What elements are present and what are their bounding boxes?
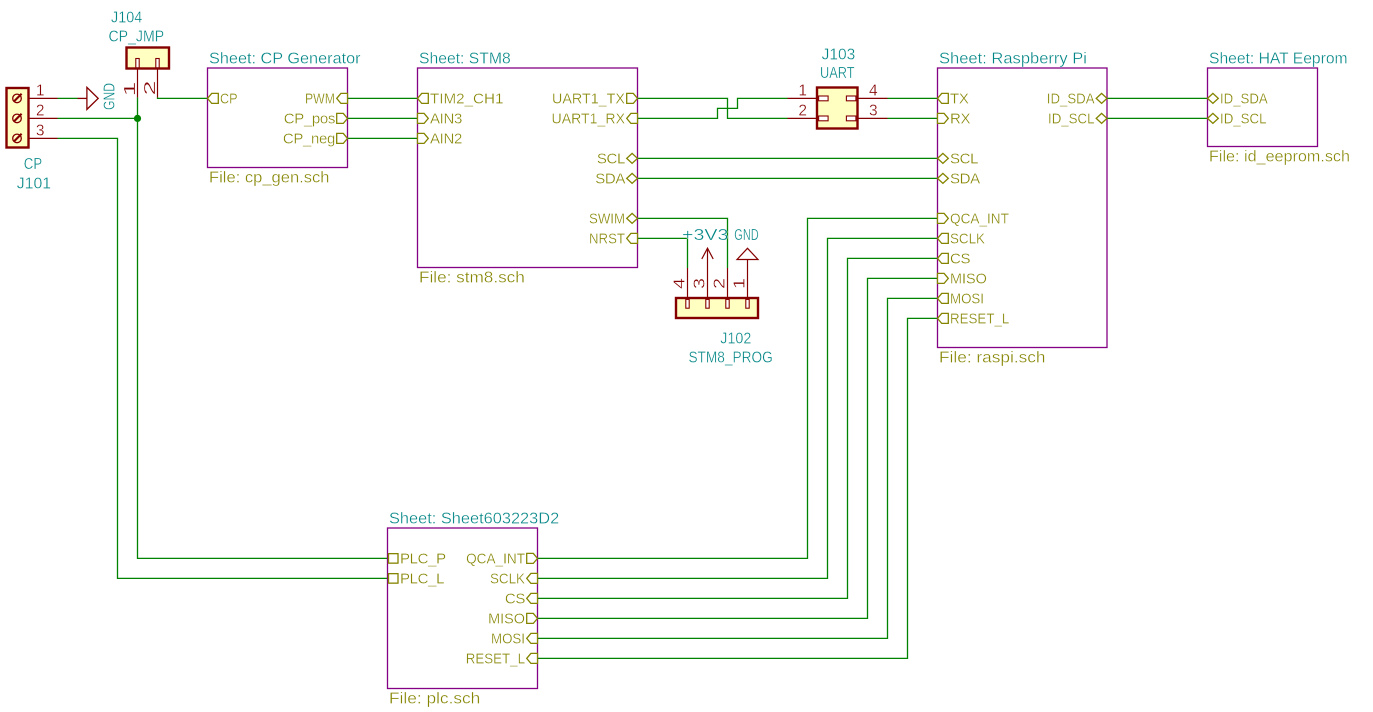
svg-text:File: stm8.sch: File: stm8.sch (419, 270, 525, 287)
svg-text:RESET_L: RESET_L (466, 650, 525, 667)
svg-text:SCL: SCL (950, 150, 978, 167)
svg-text:NRST: NRST (589, 230, 625, 247)
svg-text:Sheet: Sheet603223D2: Sheet: Sheet603223D2 (389, 511, 559, 528)
svg-text:SDA: SDA (595, 170, 625, 187)
svg-text:Sheet: CP Generator: Sheet: CP Generator (209, 51, 361, 68)
svg-text:CP_JMP: CP_JMP (109, 29, 165, 46)
svg-text:ID_SDA: ID_SDA (1047, 90, 1095, 107)
svg-text:SCLK: SCLK (490, 570, 525, 587)
svg-text:STM8_PROG: STM8_PROG (688, 350, 772, 367)
svg-text:File: cp_gen.sch: File: cp_gen.sch (209, 170, 330, 187)
svg-text:RX: RX (950, 110, 970, 127)
svg-text:Sheet: Raspberry Pi: Sheet: Raspberry Pi (939, 51, 1087, 68)
svg-text:3: 3 (869, 102, 878, 119)
svg-text:CP: CP (24, 156, 42, 173)
svg-text:ID_SCL: ID_SCL (1220, 110, 1267, 127)
svg-text:SCLK: SCLK (950, 230, 985, 247)
svg-text:RESET_L: RESET_L (950, 310, 1009, 327)
svg-text:MISO: MISO (950, 270, 987, 287)
svg-text:CP_neg: CP_neg (283, 130, 335, 147)
svg-text:UART1_TX: UART1_TX (552, 90, 625, 107)
svg-text:2: 2 (798, 102, 807, 119)
svg-text:1: 1 (122, 82, 139, 97)
svg-text:QCA_INT: QCA_INT (950, 210, 1009, 227)
svg-text:Sheet: STM8: Sheet: STM8 (419, 51, 511, 68)
svg-text:J104: J104 (111, 10, 143, 27)
svg-text:SDA: SDA (950, 170, 980, 187)
svg-text:CS: CS (505, 590, 525, 607)
svg-text:MISO: MISO (488, 610, 525, 627)
svg-text:File: raspi.sch: File: raspi.sch (939, 350, 1046, 367)
svg-text:3: 3 (692, 278, 709, 289)
svg-text:CS: CS (950, 250, 970, 267)
svg-text:2: 2 (712, 278, 729, 289)
svg-text:GND: GND (734, 227, 758, 244)
svg-text:File: plc.sch: File: plc.sch (389, 691, 480, 708)
svg-text:AIN3: AIN3 (430, 110, 462, 127)
svg-text:1: 1 (798, 82, 807, 99)
svg-text:MOSI: MOSI (491, 630, 525, 647)
svg-text:ID_SDA: ID_SDA (1220, 90, 1268, 107)
svg-text:CP_pos: CP_pos (284, 110, 335, 127)
svg-text:MOSI: MOSI (950, 290, 984, 307)
svg-text:PLC_L: PLC_L (400, 570, 444, 587)
svg-text:SWIM: SWIM (589, 210, 625, 227)
svg-text:CP: CP (220, 90, 238, 107)
svg-text:4: 4 (869, 82, 878, 99)
svg-text:PWM: PWM (305, 90, 335, 107)
svg-text:J102: J102 (720, 331, 751, 348)
svg-text:2: 2 (36, 102, 45, 119)
svg-text:J103: J103 (822, 47, 856, 64)
svg-text:1: 1 (732, 278, 749, 289)
svg-text:4: 4 (672, 278, 689, 289)
svg-text:Sheet: HAT Eeprom: Sheet: HAT Eeprom (1209, 51, 1348, 68)
svg-text:J101: J101 (17, 176, 51, 193)
svg-text:File: id_eeprom.sch: File: id_eeprom.sch (1209, 149, 1350, 166)
svg-text:PLC_P: PLC_P (400, 550, 446, 567)
svg-text:UART1_RX: UART1_RX (552, 110, 626, 127)
svg-text:TX: TX (950, 90, 969, 107)
svg-text:3: 3 (36, 122, 45, 139)
svg-text:QCA_INT: QCA_INT (466, 550, 525, 567)
svg-text:UART: UART (820, 65, 855, 82)
svg-text:TIM2_CH1: TIM2_CH1 (430, 90, 503, 107)
svg-text:AIN2: AIN2 (430, 130, 462, 147)
svg-text:SCL: SCL (597, 150, 625, 167)
svg-text:ID_SCL: ID_SCL (1048, 110, 1095, 127)
svg-text:GND: GND (102, 83, 119, 110)
svg-text:1: 1 (36, 82, 45, 99)
svg-text:+3V3: +3V3 (682, 227, 728, 244)
svg-text:2: 2 (142, 81, 159, 96)
